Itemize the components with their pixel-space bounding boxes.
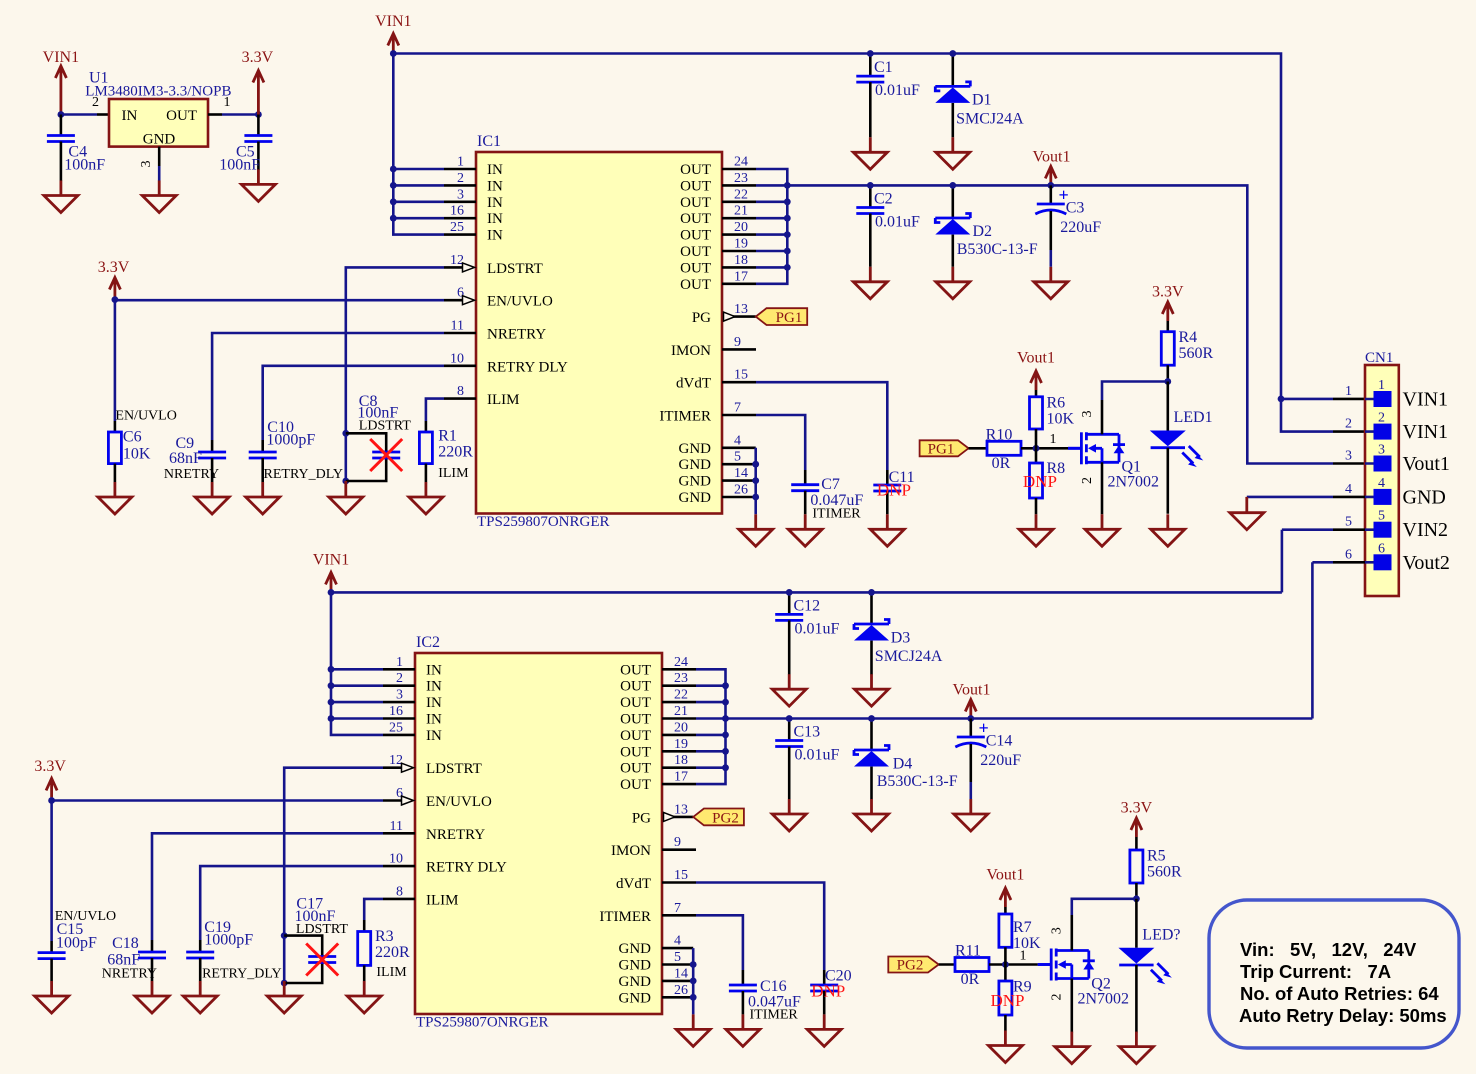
diode D4 schottky <box>854 719 958 800</box>
ground (C19) <box>183 981 217 1013</box>
wire EN/UVLO net to IC2 pin6 <box>52 799 383 802</box>
svg-text:LED?: LED? <box>1142 927 1180 944</box>
svg-text:0R: 0R <box>992 455 1011 472</box>
IC2 pin numbers left <box>389 655 403 900</box>
svg-text:Vout1: Vout1 <box>1403 453 1450 475</box>
svg-text:DNP: DNP <box>811 982 845 1001</box>
svg-text:16: 16 <box>389 704 403 719</box>
svg-text:1: 1 <box>457 155 464 170</box>
ground (IC2 GND pins) <box>676 1014 710 1046</box>
pin arrow EN/UVLO <box>463 296 475 305</box>
svg-text:3.3V: 3.3V <box>98 259 130 276</box>
node C1 tap <box>867 50 874 57</box>
svg-text:2N7002: 2N7002 <box>1078 990 1130 1007</box>
svg-text:dVdT: dVdT <box>616 876 651 892</box>
svg-text:PG1: PG1 <box>776 310 803 326</box>
svg-text:OUT: OUT <box>680 211 711 227</box>
LED2 <box>1118 899 1180 1033</box>
svg-text:C13: C13 <box>794 724 821 741</box>
capacitor C1 <box>856 54 920 138</box>
svg-text:26: 26 <box>734 483 748 498</box>
wire PG1 to R10 <box>969 447 988 450</box>
capacitor C16 <box>729 970 801 1023</box>
svg-text:2: 2 <box>1345 417 1352 432</box>
ground (C5) <box>241 169 275 201</box>
svg-text:LDSTRT: LDSTRT <box>487 261 543 277</box>
svg-text:20: 20 <box>734 220 748 235</box>
power 3.3V (R4) <box>1152 284 1184 332</box>
node VIN1 junction <box>390 50 397 57</box>
capacitor C4 <box>47 115 105 182</box>
svg-text:PG: PG <box>692 310 711 326</box>
svg-text:OUT: OUT <box>680 162 711 178</box>
svg-text:VIN1: VIN1 <box>43 49 79 66</box>
ground (R9) <box>988 1031 1022 1063</box>
svg-text:11: 11 <box>390 819 403 834</box>
svg-text:5: 5 <box>674 950 681 965</box>
node D2 tap <box>949 182 956 189</box>
node D1 tap <box>949 50 956 57</box>
IC1 right pin stubs PG/IMON/dVdT/ITIMER <box>722 317 756 415</box>
node GND bus junctions (IC2) <box>690 961 697 1001</box>
resistor R4 <box>1161 329 1213 382</box>
wire GND bus (IC1) <box>754 448 757 515</box>
node D3 tap <box>868 589 875 596</box>
svg-text:DNP: DNP <box>1023 472 1057 491</box>
svg-text:13: 13 <box>734 302 748 317</box>
ground (R8) <box>1019 514 1053 546</box>
ground (LED1) <box>1151 514 1185 546</box>
svg-text:IN: IN <box>487 228 503 244</box>
wire Vout2 rail <box>726 717 1313 720</box>
svg-text:5: 5 <box>1378 509 1385 524</box>
IC2 OUT pin stubs <box>662 669 696 784</box>
capacitor C3 polarized <box>1035 185 1101 267</box>
wire Q2 drain to LED node <box>1071 915 1074 951</box>
node C13 tap <box>786 715 793 722</box>
svg-text:4: 4 <box>1345 482 1352 497</box>
resistor R5 <box>1130 848 1182 899</box>
svg-text:2: 2 <box>396 671 403 686</box>
svg-text:C18: C18 <box>112 935 139 952</box>
svg-text:R6: R6 <box>1047 395 1066 412</box>
svg-text:D3: D3 <box>891 629 911 646</box>
svg-text:ILIM: ILIM <box>438 466 469 481</box>
node VIN1 junction (IC2) <box>328 589 335 596</box>
node OUT bus junctions (IC2) <box>722 682 729 771</box>
capacitor C7 <box>791 470 863 522</box>
svg-text:OUT: OUT <box>620 744 651 760</box>
IC1 pin numbers right <box>734 155 748 498</box>
IC1 pin names left <box>487 162 568 408</box>
ground (C15) <box>35 981 69 1013</box>
wire ITIMER to C7 <box>756 415 805 470</box>
capacitor C5 <box>219 115 272 174</box>
svg-text:10: 10 <box>389 852 403 867</box>
svg-text:1: 1 <box>396 655 403 670</box>
resistor R9 <box>999 965 1032 1031</box>
power VIN1 (IC2) <box>313 552 349 592</box>
svg-text:R4: R4 <box>1179 329 1198 346</box>
ground (D2) <box>936 267 970 299</box>
svg-text:17: 17 <box>734 269 748 284</box>
resistor C6 10K <box>108 429 150 483</box>
ground (C8) <box>329 482 363 514</box>
power 3.3V (EN/UVLO divider) <box>98 259 130 300</box>
svg-text:220uF: 220uF <box>980 752 1021 769</box>
svg-text:No. of Auto Retries: 64: No. of Auto Retries: 64 <box>1240 983 1439 1004</box>
regulator U1 body <box>85 69 231 167</box>
svg-text:24: 24 <box>674 655 688 670</box>
node R4/LED1/Q1 junction <box>1164 378 1171 385</box>
ground (R1) <box>409 482 443 514</box>
svg-text:VIN1: VIN1 <box>375 13 411 30</box>
svg-text:C14: C14 <box>986 733 1013 750</box>
svg-text:13: 13 <box>674 802 688 817</box>
wire Q2 source to ground <box>1071 979 1074 1033</box>
svg-text:EN/UVLO: EN/UVLO <box>487 294 553 310</box>
svg-text:3: 3 <box>396 688 403 703</box>
svg-text:19: 19 <box>674 737 688 752</box>
svg-text:dVdT: dVdT <box>676 376 711 392</box>
svg-text:TPS259807ONRGER: TPS259807ONRGER <box>416 1015 549 1031</box>
capacitor C9 <box>164 435 226 482</box>
wire Q1 source to ground <box>1101 462 1104 514</box>
wire down to R-C6 <box>114 300 117 421</box>
wire dVdT to C20 <box>696 883 824 971</box>
IC2 GND pin stubs <box>662 948 693 997</box>
IC1 pin numbers left <box>450 155 464 400</box>
transistor Q2 2N7002 <box>1038 927 1129 1007</box>
capacitor C10 <box>249 419 343 482</box>
ground (C11) <box>870 514 904 546</box>
capacitor C19 <box>186 919 281 982</box>
svg-text:220uF: 220uF <box>1060 219 1101 236</box>
svg-text:RETRY_DLY: RETRY_DLY <box>264 467 344 482</box>
svg-text:7: 7 <box>674 901 681 916</box>
svg-text:20: 20 <box>674 720 688 735</box>
svg-text:18: 18 <box>674 753 688 768</box>
svg-text:C2: C2 <box>874 191 893 208</box>
svg-text:8: 8 <box>396 884 403 899</box>
node C17 top junction <box>281 932 288 939</box>
net flag PG2 (IC2 pin13) <box>693 809 744 827</box>
svg-text:3: 3 <box>139 161 154 168</box>
node GND bus junctions <box>752 461 759 501</box>
net flag PG1 (IC1 pin13) <box>756 308 807 326</box>
wire VIN1 bus left of IC1 <box>393 54 444 235</box>
wire ITIMER to C16 <box>696 915 743 970</box>
wire U1.OUT to 3.3V node <box>208 113 222 116</box>
pin arrow PG <box>724 312 736 321</box>
svg-text:B530C-13-F: B530C-13-F <box>957 241 1038 258</box>
svg-text:14: 14 <box>734 466 748 481</box>
svg-text:IN: IN <box>426 728 442 744</box>
svg-text:PG: PG <box>632 810 651 826</box>
svg-text:SMCJ24A: SMCJ24A <box>875 648 943 665</box>
wire NRETRY to C9 <box>212 333 444 440</box>
capacitor C20 <box>810 968 851 1015</box>
power Vout1 (R7) <box>986 867 1024 915</box>
node junction OUT/C5 <box>255 111 262 118</box>
wire PG2 to R11 <box>939 963 955 966</box>
diode D1 TVS <box>935 54 1024 138</box>
svg-text:2: 2 <box>1378 411 1385 426</box>
svg-text:GND: GND <box>143 132 176 148</box>
svg-text:R11: R11 <box>955 943 981 960</box>
ground (Q2 source) <box>1055 1032 1089 1064</box>
svg-text:23: 23 <box>734 171 748 186</box>
svg-text:VIN1: VIN1 <box>1403 421 1449 443</box>
power 3.3V (EN/UVLO divider 2) <box>34 758 66 801</box>
svg-text:Trip Current: 7A: Trip Current: 7A <box>1240 961 1391 982</box>
wire R11 to node 1 <box>989 963 1038 966</box>
ground (Q1 source) <box>1085 514 1119 546</box>
svg-text:OUT: OUT <box>620 679 651 695</box>
ground (U1 pin3) <box>142 181 176 213</box>
wire CN1 pin4 to ground <box>1333 496 1365 499</box>
LED1 <box>1150 382 1213 514</box>
power VIN1 (IC1) <box>375 13 411 53</box>
svg-text:560R: 560R <box>1179 345 1214 362</box>
svg-text:1000pF: 1000pF <box>204 932 253 949</box>
ground (C7) <box>788 514 822 546</box>
svg-text:5: 5 <box>1345 515 1352 530</box>
svg-text:10: 10 <box>450 351 464 366</box>
svg-text:VIN1: VIN1 <box>1403 389 1449 411</box>
svg-text:3: 3 <box>1378 443 1385 458</box>
svg-text:4: 4 <box>734 433 741 448</box>
IC1 OUT pin stubs <box>722 169 756 284</box>
svg-text:GND: GND <box>1403 486 1446 508</box>
svg-text:0.01uF: 0.01uF <box>795 747 840 764</box>
ground (C2) <box>853 267 887 299</box>
svg-text:11: 11 <box>451 319 464 334</box>
node Vout1/C3 junction <box>1047 182 1054 189</box>
svg-text:15: 15 <box>674 868 688 883</box>
IC1 TPS259807ONRGER body <box>476 133 722 530</box>
svg-text:C6: C6 <box>123 429 142 446</box>
svg-text:OUT: OUT <box>620 712 651 728</box>
svg-text:ITIMER: ITIMER <box>599 909 651 925</box>
IC2 pin names left <box>426 662 507 908</box>
svg-text:ILIM: ILIM <box>376 965 407 980</box>
svg-text:100pF: 100pF <box>56 935 97 952</box>
capacitor C14 polarized <box>955 718 1021 799</box>
svg-text:OUT: OUT <box>620 695 651 711</box>
svg-text:LDSTRT: LDSTRT <box>359 419 411 434</box>
ground (C16) <box>726 1014 760 1046</box>
svg-text:18: 18 <box>734 253 748 268</box>
svg-text:17: 17 <box>674 770 688 785</box>
svg-text:220R: 220R <box>438 444 473 461</box>
wire C8 to ground <box>344 481 347 482</box>
svg-text:OUT: OUT <box>680 195 711 211</box>
wire LDSTRT to C8 <box>346 267 444 481</box>
svg-text:ILIM: ILIM <box>426 892 459 908</box>
resistor R8 <box>1030 448 1066 514</box>
resistor R1 <box>419 428 473 483</box>
pin 3 stub U1 <box>158 147 161 166</box>
wire ILIM to R3 <box>364 899 383 920</box>
svg-text:3: 3 <box>1345 449 1352 464</box>
node C12 tap <box>786 589 793 596</box>
svg-text:68nF: 68nF <box>169 450 202 467</box>
svg-text:0.01uF: 0.01uF <box>875 82 920 99</box>
ground (C1) <box>853 137 887 169</box>
ground (C9) <box>195 482 229 514</box>
svg-text:IN: IN <box>426 662 442 678</box>
resistor R6 <box>1030 395 1075 449</box>
capacitor C17 (DNP loop) <box>284 896 348 984</box>
svg-text:21: 21 <box>734 204 748 219</box>
svg-text:NRETRY: NRETRY <box>426 827 485 843</box>
svg-text:21: 21 <box>674 704 688 719</box>
capacitor C12 <box>775 592 839 674</box>
svg-text:2: 2 <box>92 95 99 110</box>
svg-text:OUT: OUT <box>680 228 711 244</box>
svg-text:D2: D2 <box>973 223 993 240</box>
svg-text:EN/UVLO: EN/UVLO <box>115 409 176 424</box>
ground (C18) <box>135 981 169 1013</box>
pin arrow PG (IC2) <box>664 812 676 821</box>
svg-text:VIN1: VIN1 <box>313 552 349 569</box>
svg-text:GND: GND <box>679 474 712 490</box>
wire ILIM to R1 <box>426 399 444 421</box>
IC1 GND pin stubs <box>722 448 756 497</box>
ground (D4) <box>855 799 889 831</box>
ground (CN1 pin4) <box>1230 498 1264 530</box>
svg-text:LDSTRT: LDSTRT <box>296 922 348 937</box>
svg-text:2: 2 <box>1080 477 1095 484</box>
svg-text:IN: IN <box>487 195 503 211</box>
diode D2 schottky <box>935 185 1037 266</box>
X mark DNP (C8) <box>370 439 402 471</box>
svg-text:100nF: 100nF <box>219 157 260 174</box>
ground (R3) <box>347 981 381 1013</box>
IC1 control pin stubs <box>444 267 476 398</box>
resistor R10 <box>986 426 1021 472</box>
svg-text:OUT: OUT <box>166 108 197 124</box>
svg-text:C1: C1 <box>874 59 893 76</box>
pin arrow EN/UVLO (IC2) <box>402 796 414 805</box>
svg-text:D4: D4 <box>893 755 913 772</box>
svg-text:ITIMER: ITIMER <box>659 409 711 425</box>
wire CN1 pin5 to VIN2 rail <box>1333 528 1365 531</box>
svg-text:4: 4 <box>674 934 681 949</box>
svg-text:IN: IN <box>487 162 503 178</box>
svg-text:IN: IN <box>487 178 503 194</box>
wire RETRY DLY to C19 <box>200 866 383 940</box>
ground (C4) <box>44 181 78 213</box>
svg-text:22: 22 <box>734 187 748 202</box>
svg-text:3.3V: 3.3V <box>242 49 274 66</box>
svg-text:OUT: OUT <box>680 260 711 276</box>
svg-text:IN: IN <box>122 108 138 124</box>
svg-text:OUT: OUT <box>680 244 711 260</box>
svg-text:CN1: CN1 <box>1365 350 1393 366</box>
svg-text:7: 7 <box>734 401 741 416</box>
svg-text:100nF: 100nF <box>64 157 105 174</box>
resistor R7 <box>999 914 1041 965</box>
svg-text:IMON: IMON <box>611 843 651 859</box>
svg-text:OUT: OUT <box>620 761 651 777</box>
node D4 tap <box>868 715 875 722</box>
svg-text:9: 9 <box>734 335 741 350</box>
svg-text:R3: R3 <box>375 928 394 945</box>
wire VIN1 bus left of IC2 <box>331 592 383 735</box>
svg-text:OUT: OUT <box>620 728 651 744</box>
svg-text:B530C-13-F: B530C-13-F <box>877 773 958 790</box>
svg-text:0.01uF: 0.01uF <box>795 620 840 637</box>
ground (D3) <box>855 674 889 706</box>
ground (LED2) <box>1119 1032 1153 1064</box>
svg-text:Vout1: Vout1 <box>953 682 991 699</box>
svg-text:Vout1: Vout1 <box>1033 149 1071 166</box>
svg-text:IN: IN <box>426 695 442 711</box>
power Vout1 (R6) <box>1017 350 1055 397</box>
capacitor C13 <box>775 719 839 800</box>
svg-text:LED1: LED1 <box>1174 409 1213 426</box>
svg-text:ITIMER: ITIMER <box>750 1008 799 1023</box>
wire down to C15 <box>50 801 53 942</box>
wire VIN1 to U1.IN <box>61 113 97 116</box>
IC2 IN pin stubs <box>383 669 415 735</box>
transistor Q1 2N7002 <box>1068 411 1159 491</box>
svg-text:9: 9 <box>674 835 681 850</box>
node IN bus junctions <box>390 166 397 222</box>
svg-text:OUT: OUT <box>620 662 651 678</box>
wire R10 to node 1 <box>1021 447 1068 450</box>
ground (C6) <box>98 482 132 514</box>
svg-text:GND: GND <box>619 990 652 1006</box>
node C8 bottom junction <box>342 478 349 485</box>
svg-text:GND: GND <box>619 941 652 957</box>
svg-text:PG2: PG2 <box>897 958 924 974</box>
svg-text:3.3V: 3.3V <box>1152 284 1184 301</box>
svg-text:RETRY_DLY: RETRY_DLY <box>202 967 282 982</box>
svg-text:3.3V: 3.3V <box>1121 800 1153 817</box>
svg-text:IC1: IC1 <box>477 133 501 150</box>
svg-text:OUT: OUT <box>620 777 651 793</box>
pin arrow LDSTRT <box>463 263 475 272</box>
svg-text:15: 15 <box>734 368 748 383</box>
power Vout1 (C3) <box>1033 149 1071 186</box>
node VIN1/CN1.1 junction <box>1278 396 1285 403</box>
svg-text:23: 23 <box>674 671 688 686</box>
svg-text:Vout1: Vout1 <box>986 867 1024 884</box>
resistor R3 <box>358 928 410 981</box>
svg-text:NRETRY: NRETRY <box>487 327 546 343</box>
node OUT bus junctions <box>784 182 791 271</box>
IC2 TPS259807ONRGER body <box>415 634 662 1031</box>
IC2 right pin stubs PG/IMON/dVdT/ITIMER <box>662 817 696 915</box>
X mark DNP (C17) <box>306 944 338 976</box>
svg-text:OUT: OUT <box>680 178 711 194</box>
svg-text:GND: GND <box>679 457 712 473</box>
svg-text:IN: IN <box>426 679 442 695</box>
IC2 pin numbers right <box>674 655 688 998</box>
CN1 pin numbers inner <box>1378 378 1385 556</box>
svg-text:NRETRY: NRETRY <box>164 467 219 482</box>
CN1 inner pin stubs <box>1365 399 1374 562</box>
svg-text:3.3V: 3.3V <box>34 758 66 775</box>
svg-text:3: 3 <box>1050 927 1065 934</box>
wire CN1 pin6 to Vout2 rail <box>1333 561 1365 564</box>
capacitor C15 <box>38 921 97 981</box>
svg-text:2N7002: 2N7002 <box>1108 474 1160 491</box>
svg-text:560R: 560R <box>1147 864 1182 881</box>
